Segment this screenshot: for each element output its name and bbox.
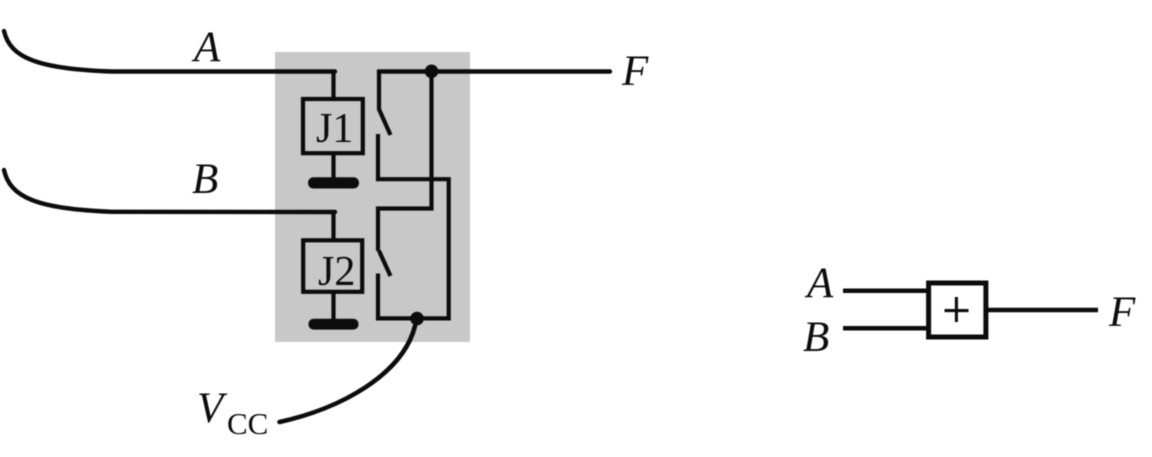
switch S2 blade <box>379 251 391 276</box>
OR symbol: output wire F <box>988 308 1098 313</box>
svg-text:A: A <box>191 24 221 71</box>
node F junction dot <box>425 65 439 79</box>
svg-text:J1: J1 <box>316 106 353 152</box>
svg-text:F: F <box>621 48 649 95</box>
svg-text:J2: J2 <box>318 249 355 295</box>
wire input B curve and horizontal <box>4 170 335 212</box>
switch S1 top terminal <box>377 70 381 111</box>
wire J2 to ground bar <box>331 291 335 322</box>
wire A down to J1 <box>331 70 335 99</box>
wire input A curve and horizontal <box>4 31 335 72</box>
wire B down to J2 <box>331 211 335 241</box>
svg-text:B: B <box>192 156 218 203</box>
ground bar of J2 <box>309 319 359 330</box>
wire Vcc curve <box>280 326 416 422</box>
wire from node F down and over to switch S2 <box>378 72 432 252</box>
svg-text:B: B <box>803 314 829 361</box>
svg-text:A: A <box>804 260 834 307</box>
svg-text:CC: CC <box>227 406 268 441</box>
OR gate box <box>929 283 986 337</box>
switch S1 blade <box>379 109 391 135</box>
svg-text:V: V <box>197 385 228 432</box>
OR symbol: input wire B <box>843 326 929 331</box>
svg-text:F: F <box>1108 289 1136 336</box>
OR gate plus sign vertical <box>955 297 958 322</box>
wire output F horizontal <box>379 69 610 73</box>
relay coil J1 <box>303 99 363 153</box>
wire J1 to ground bar <box>331 153 335 180</box>
OR gate plus sign horizontal <box>945 309 969 312</box>
relay coil J2 <box>303 240 362 291</box>
switch S1 bottom terminal and right rail wire <box>378 134 449 318</box>
OR symbol: input wire A <box>843 289 929 294</box>
ground bar of J1 <box>308 177 359 188</box>
node Vcc junction dot <box>410 312 424 326</box>
relay block background <box>275 52 470 342</box>
